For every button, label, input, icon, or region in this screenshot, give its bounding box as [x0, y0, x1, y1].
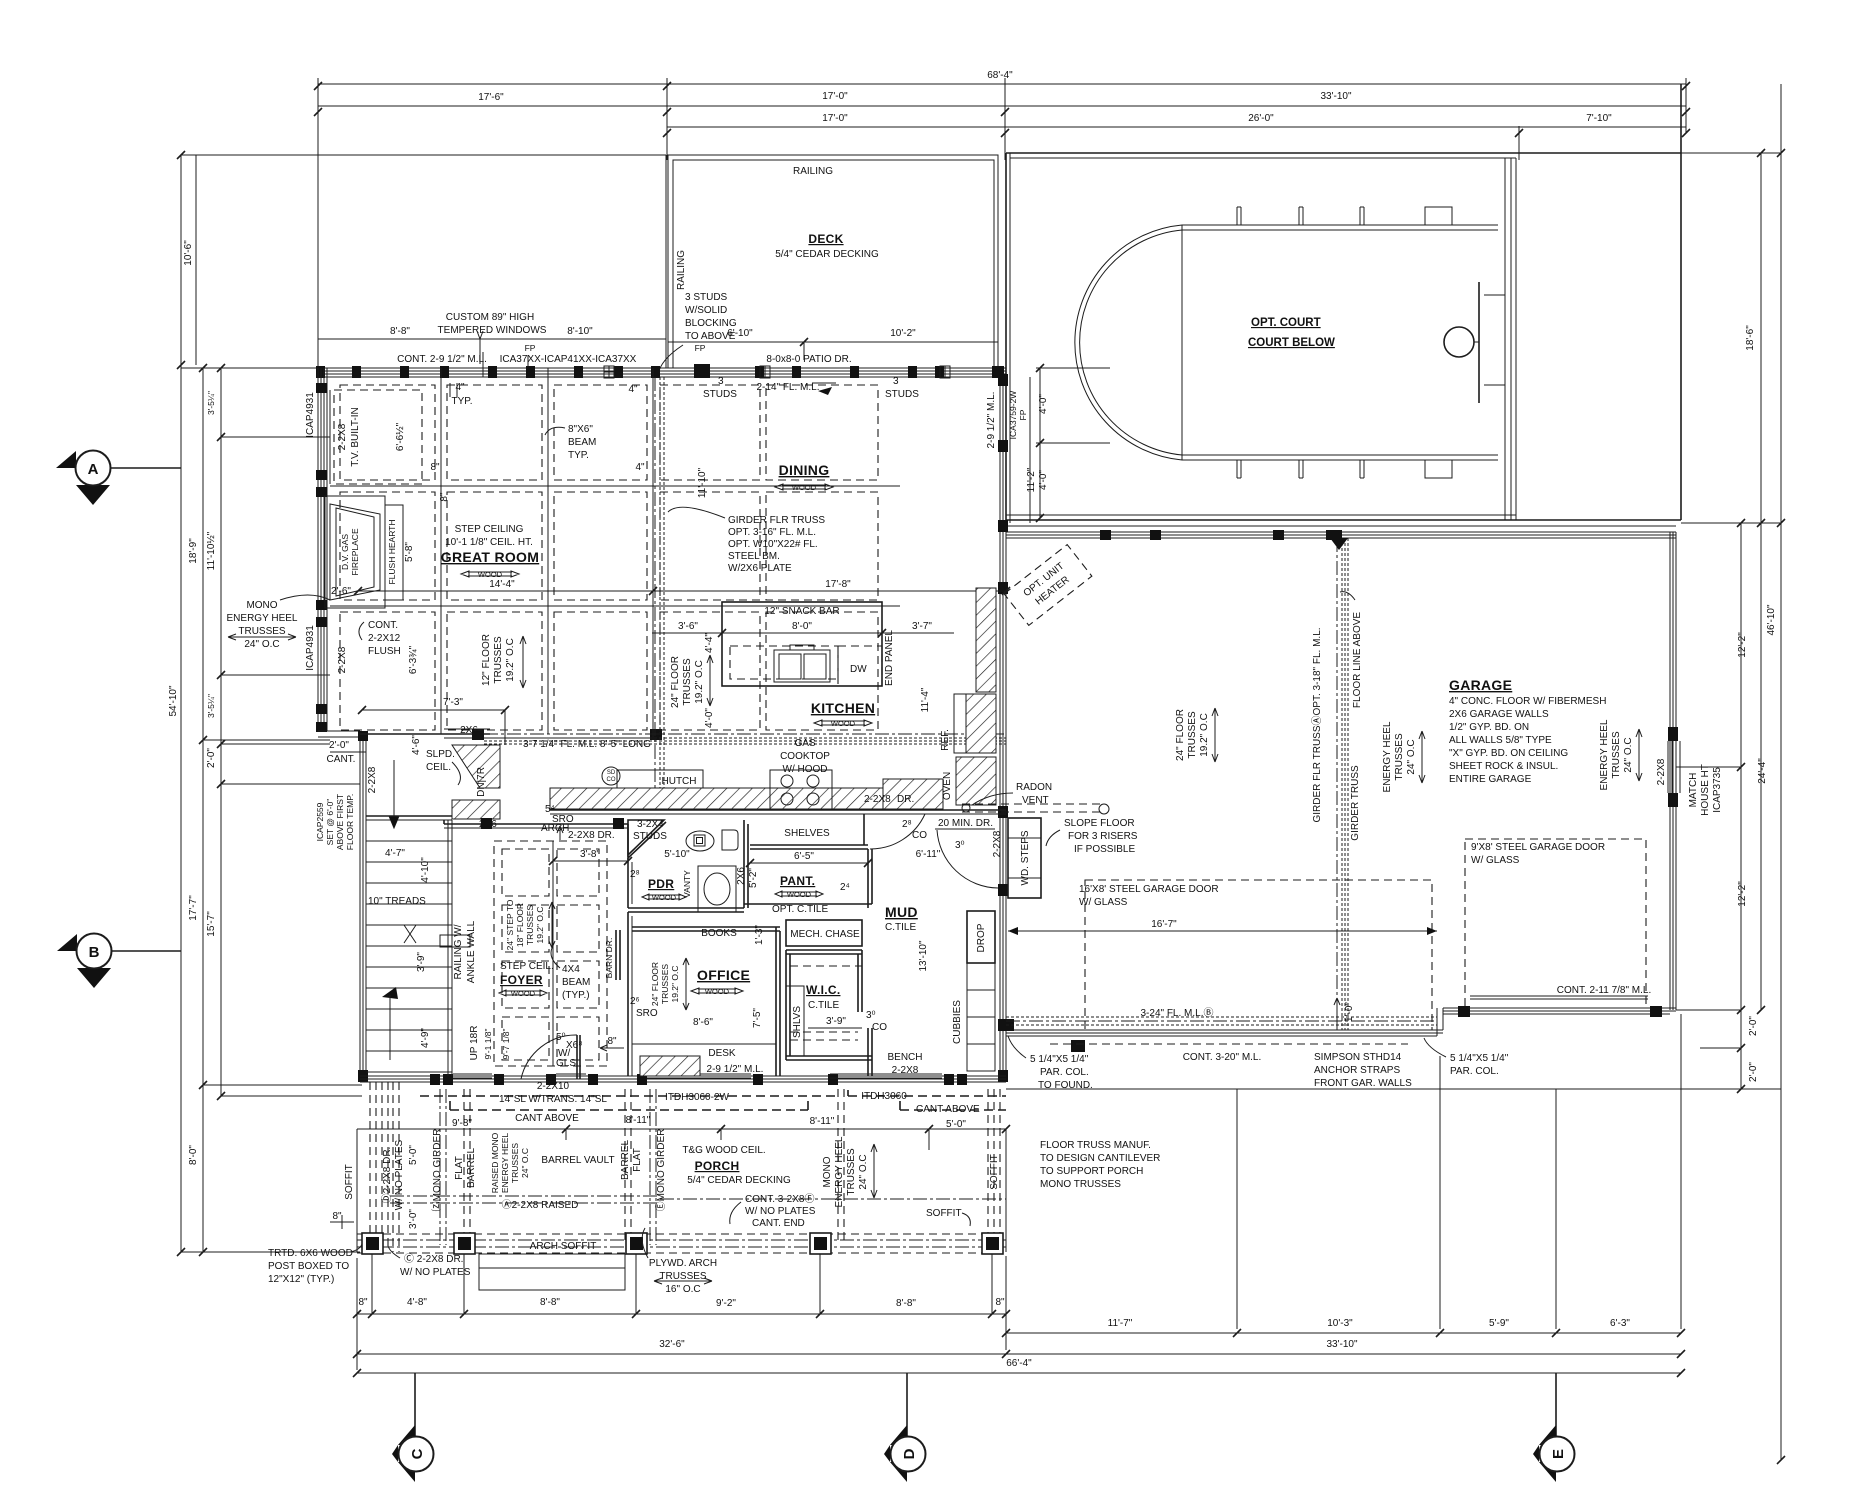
svg-text:ITDH3060-2W: ITDH3060-2W [665, 1092, 729, 1103]
svg-text:ENTIRE GARAGE: ENTIRE GARAGE [1449, 774, 1532, 785]
opt unit heater [1004, 545, 1092, 626]
svg-text:FLOOR TEMP.: FLOOR TEMP. [345, 794, 355, 850]
svg-text:COURT BELOW: COURT BELOW [1248, 337, 1335, 349]
extension horizontals [1520, 152, 1781, 154]
top wall [1006, 531, 1676, 533]
svg-text:OVEN: OVEN [942, 772, 953, 800]
svg-text:19.2" O.C: 19.2" O.C [670, 965, 680, 1002]
svg-text:ABOVE FIRST: ABOVE FIRST [335, 794, 345, 850]
svg-text:9'-2": 9'-2" [716, 1298, 736, 1309]
svg-text:FOR 3 RISERS: FOR 3 RISERS [1068, 831, 1138, 842]
svg-text:SLOPE FLOOR: SLOPE FLOOR [1064, 818, 1135, 829]
svg-text:10'-6": 10'-6" [183, 240, 194, 266]
2X6 wall label line across (great room south wall) [444, 737, 660, 739]
svg-text:E: E [1550, 1449, 1567, 1459]
svg-text:13'-10": 13'-10" [918, 940, 929, 971]
svg-text:ICAP2559: ICAP2559 [315, 802, 325, 841]
svg-text:12" SNACK BAR: 12" SNACK BAR [764, 606, 839, 617]
svg-text:8'-10": 8'-10" [567, 326, 593, 337]
svg-text:8": 8" [439, 492, 450, 502]
svg-text:ICAP3735: ICAP3735 [1712, 767, 1723, 813]
svg-text:3-2X4: 3-2X4 [637, 819, 664, 830]
front wall left segment [1006, 1029, 1443, 1031]
notch at 2'-0" cant [318, 730, 360, 732]
svg-text:RAILING: RAILING [793, 166, 833, 177]
raised girder dash-dot horizontals [390, 1196, 660, 1203]
svg-text:17'-6": 17'-6" [478, 92, 504, 103]
dim row 68'-4" [318, 83, 1686, 85]
svg-text:BEAM: BEAM [568, 437, 596, 448]
svg-text:ENERGY HEEL: ENERGY HEEL [227, 613, 298, 624]
svg-text:CONT.: CONT. [368, 620, 398, 631]
svg-text:PAR. COL.: PAR. COL. [1040, 1067, 1089, 1078]
svg-text:CONT. 2-11 7/8" M.L.: CONT. 2-11 7/8" M.L. [1557, 985, 1652, 996]
svg-text:ALL WALLS 5/8" TYPE: ALL WALLS 5/8" TYPE [1449, 735, 1552, 746]
svg-text:SOFFIT: SOFFIT [344, 1164, 355, 1200]
svg-text:PANT.: PANT. [780, 874, 815, 888]
wall under counters [550, 809, 1006, 811]
svg-text:W/2X6 PLATE: W/2X6 PLATE [728, 563, 792, 574]
svg-text:TRUSSES: TRUSSES [660, 964, 670, 1004]
svg-text:8": 8" [995, 1297, 1005, 1308]
svg-text:17'-0": 17'-0" [822, 91, 848, 102]
SLPD CEIL + hatch [452, 745, 500, 788]
svg-text:TRUSSES: TRUSSES [659, 1271, 707, 1282]
svg-text:C.TILE: C.TILE [808, 1000, 839, 1011]
floor girder dashes above front wall [1006, 1020, 1437, 1022]
svg-text:16'-7": 16'-7" [1151, 919, 1177, 930]
svg-text:W/SOLID: W/SOLID [685, 305, 727, 316]
svg-text:2-2X8: 2-2X8 [337, 423, 348, 450]
svg-text:2-2X8: 2-2X8 [367, 766, 378, 793]
svg-text:4'-10": 4'-10" [420, 857, 431, 883]
svg-text:WOOD: WOOD [511, 989, 536, 998]
svg-text:DINING: DINING [779, 462, 830, 478]
svg-text:8'-11": 8'-11" [626, 1115, 651, 1126]
svg-text:32'-6": 32'-6" [659, 1339, 685, 1350]
svg-text:⒵MONO GIRDER: ⒵MONO GIRDER [431, 1129, 443, 1212]
posts [362, 1233, 1003, 1254]
svg-text:CEIL.: CEIL. [426, 762, 451, 773]
svg-text:11'-7": 11'-7" [1108, 1318, 1133, 1329]
svg-text:FP: FP [525, 343, 536, 353]
svg-text:SOFFIT: SOFFIT [989, 1154, 1000, 1190]
svg-text:CUBBIES: CUBBIES [952, 1000, 963, 1044]
svg-text:TRUSSES: TRUSSES [1187, 711, 1198, 759]
svg-text:2'-0": 2'-0" [329, 740, 349, 751]
svg-text:2⁴: 2⁴ [840, 882, 850, 893]
svg-text:WOOD: WOOD [792, 483, 817, 492]
svg-text:8'-11": 8'-11" [810, 1116, 835, 1127]
svg-text:GLS: GLS [556, 1058, 576, 1069]
svg-text:ENERGY HEEL: ENERGY HEEL [500, 1133, 510, 1194]
svg-text:10'-3": 10'-3" [1327, 1318, 1353, 1329]
svg-text:1'-0": 1'-0" [1344, 1002, 1355, 1022]
svg-text:3⁰: 3⁰ [866, 1010, 876, 1021]
svg-text:10'-1 1/8" CEIL. HT.: 10'-1 1/8" CEIL. HT. [445, 537, 533, 548]
svg-text:ENERGY HEEL: ENERGY HEEL [1599, 719, 1610, 790]
svg-text:SOFFIT: SOFFIT [926, 1208, 962, 1219]
svg-text:ENERGY HEEL: ENERGY HEEL [1382, 721, 1393, 792]
svg-text:TRUSSES: TRUSSES [1611, 731, 1622, 779]
svg-text:SD: SD [607, 770, 616, 776]
pantry walls [744, 820, 748, 908]
svg-text:8": 8" [358, 1297, 368, 1308]
svg-text:PAR. COL.: PAR. COL. [1450, 1066, 1499, 1077]
svg-text:10" TREADS: 10" TREADS [368, 896, 426, 907]
hatch at office bottom left [640, 1056, 700, 1076]
wd steps [1008, 818, 1041, 898]
svg-text:TO DESIGN CANTILEVER: TO DESIGN CANTILEVER [1040, 1153, 1160, 1164]
svg-text:B: B [89, 944, 100, 961]
svg-text:SET @ 6'-0": SET @ 6'-0" [325, 799, 335, 846]
extension verticals [317, 78, 319, 368]
left soffit dashed vertical band [370, 1082, 388, 1250]
svg-text:3⁰: 3⁰ [955, 840, 965, 851]
svg-text:24" FLOOR: 24" FLOOR [670, 656, 681, 708]
svg-text:POST BOXED TO: POST BOXED TO [268, 1261, 349, 1272]
svg-text:W/ NO PLATES: W/ NO PLATES [400, 1267, 471, 1278]
svg-text:VANTY: VANTY [682, 870, 692, 898]
svg-text:2-2X8: 2-2X8 [1656, 758, 1667, 785]
svg-text:MATCH: MATCH [1688, 773, 1699, 808]
svg-text:RADON: RADON [1016, 782, 1052, 793]
svg-text:9'-1 1/8": 9'-1 1/8" [483, 1028, 493, 1059]
svg-text:ⒺMONO GIRDER: ⒺMONO GIRDER [655, 1129, 667, 1212]
svg-text:DECK: DECK [808, 232, 843, 246]
court outer boundary [1006, 152, 1681, 154]
basketball hoop [1478, 282, 1480, 403]
svg-text:2-2X8: 2-2X8 [892, 1065, 919, 1076]
ceiling beam grid dashed squares [340, 385, 878, 730]
svg-text:18'-9": 18'-9" [188, 538, 199, 564]
left wall [317, 368, 319, 731]
garage door dashed rects [1085, 880, 1432, 1030]
svg-text:2-2X8 DR.: 2-2X8 DR. [568, 830, 615, 841]
svg-text:C.TILE: C.TILE [885, 922, 916, 933]
svg-text:16" O.C: 16" O.C [665, 1284, 700, 1295]
front (bottom) wall [360, 1075, 1006, 1077]
svg-text:2-2X12: 2-2X12 [368, 633, 401, 644]
counter hatch band [550, 788, 883, 809]
fan symbol [686, 831, 714, 851]
counter top line w/ cooktop [617, 770, 703, 788]
svg-text:PORCH: PORCH [695, 1159, 740, 1173]
svg-text:3'-9": 3'-9" [826, 1016, 846, 1027]
svg-text:OPT. 3-16" FL. M.L.: OPT. 3-16" FL. M.L. [728, 527, 816, 538]
dash-dot girder vertical between dining/kitchen [654, 377, 656, 790]
svg-text:D.V. GAS: D.V. GAS [340, 534, 350, 570]
svg-text:ITDH3060: ITDH3060 [861, 1091, 907, 1102]
svg-text:2'-0": 2'-0" [206, 748, 217, 768]
svg-text:3'-6": 3'-6" [678, 621, 698, 632]
deck railing outline (double thin lines) [668, 155, 998, 368]
svg-text:7'-5": 7'-5" [752, 1008, 763, 1028]
svg-text:END PANEL: END PANEL [884, 630, 895, 686]
svg-text:BEAM: BEAM [562, 977, 590, 988]
svg-text:FLUSH: FLUSH [368, 646, 401, 657]
svg-text:FLUSH HEARTH: FLUSH HEARTH [387, 519, 397, 584]
svg-text:3'-0": 3'-0" [408, 1209, 419, 1229]
svg-text:TYP.: TYP. [452, 396, 473, 407]
svg-text:BOOKS: BOOKS [701, 928, 737, 939]
svg-text:17'-8": 17'-8" [825, 579, 851, 590]
svg-text:DROP: DROP [976, 923, 987, 952]
svg-text:8": 8" [332, 1211, 342, 1222]
foyer ceiling dashed grid [494, 841, 607, 1066]
svg-text:TYP.: TYP. [568, 450, 589, 461]
svg-text:WD. STEPS: WD. STEPS [1020, 830, 1031, 885]
svg-text:24" STEP TO: 24" STEP TO [505, 899, 515, 950]
svg-text:STEP CEILING: STEP CEILING [455, 524, 524, 535]
svg-text:W.I.C.: W.I.C. [806, 983, 840, 997]
stair treads [366, 820, 452, 1076]
section marker B [110, 950, 181, 952]
svg-text:REF.: REF. [940, 729, 951, 751]
svg-text:3: 3 [718, 376, 724, 387]
svg-text:WOOD: WOOD [705, 987, 730, 996]
right wall [1669, 532, 1671, 1010]
svg-text:5'-2": 5'-2" [748, 868, 759, 888]
svg-text:5'-10": 5'-10" [664, 849, 690, 860]
svg-text:19.2" O.C: 19.2" O.C [1199, 713, 1210, 757]
svg-text:6'-5": 6'-5" [794, 851, 814, 862]
svg-text:CANT.: CANT. [327, 754, 356, 765]
house right wall (shared with garage) [999, 374, 1001, 1082]
svg-text:FLAT: FLAT [454, 1156, 465, 1180]
svg-text:6'-6½": 6'-6½" [395, 422, 406, 451]
svg-text:12'-2": 12'-2" [1737, 632, 1748, 658]
svg-text:FLOOR TRUSS MANUF.: FLOOR TRUSS MANUF. [1040, 1140, 1151, 1151]
svg-text:8'-0": 8'-0" [792, 621, 812, 632]
svg-text:W/ GLASS: W/ GLASS [1471, 855, 1520, 866]
svg-text:"X" GYP. BD. ON CEILING: "X" GYP. BD. ON CEILING [1449, 748, 1568, 759]
extension horizontals [181, 154, 666, 156]
barn door [616, 930, 620, 980]
svg-text:UP 18R: UP 18R [469, 1026, 480, 1061]
svg-text:2-9 1/2" M.L.: 2-9 1/2" M.L. [986, 392, 997, 449]
svg-text:2X6: 2X6 [460, 725, 478, 736]
svg-text:STUDS: STUDS [703, 389, 737, 400]
svg-text:3 STUDS: 3 STUDS [685, 292, 728, 303]
svg-text:6'-3": 6'-3" [1610, 1318, 1630, 1329]
svg-text:W/ NO PLATES: W/ NO PLATES [745, 1206, 816, 1217]
svg-text:2X6 GARAGE WALLS: 2X6 GARAGE WALLS [1449, 709, 1549, 720]
svg-text:FP: FP [695, 343, 706, 353]
pdr walls [628, 820, 664, 855]
svg-text:12"X12" (TYP.): 12"X12" (TYP.) [268, 1274, 334, 1285]
svg-text:5/4" CEDAR DECKING: 5/4" CEDAR DECKING [775, 249, 879, 260]
svg-text:19.2" O.C: 19.2" O.C [535, 906, 545, 943]
svg-text:ICA3759-2W: ICA3759-2W [1008, 391, 1018, 440]
svg-text:BENCH: BENCH [887, 1052, 922, 1063]
svg-text:66'-4": 66'-4" [1006, 1358, 1032, 1369]
svg-text:2-14" FL. M.L.: 2-14" FL. M.L. [756, 382, 819, 393]
svg-text:TEMPERED WINDOWS: TEMPERED WINDOWS [438, 325, 547, 336]
svg-text:CANT ABOVE: CANT ABOVE [916, 1104, 980, 1115]
svg-text:SIMPSON STHD14: SIMPSON STHD14 [1314, 1052, 1402, 1063]
svg-text:CONT. 2-9 1/2" M.L.: CONT. 2-9 1/2" M.L. [397, 354, 487, 365]
svg-text:11'-2": 11'-2" [1026, 467, 1037, 492]
svg-text:BARN DR.: BARN DR. [604, 938, 614, 979]
svg-text:TRUSSES: TRUSSES [682, 658, 693, 706]
island dim 8'-0" [722, 632, 882, 634]
svg-text:8"X6": 8"X6" [568, 424, 593, 435]
svg-text:4'-8": 4'-8" [407, 1297, 427, 1308]
svg-text:24" FLOOR: 24" FLOOR [1175, 709, 1186, 761]
svg-text:33'-10": 33'-10" [1320, 91, 1351, 102]
dim row 17'-0" / 26'-0" / 7'-10" [667, 126, 1686, 128]
svg-text:TRUSSES: TRUSSES [510, 1143, 520, 1183]
svg-text:OPT. W10"X22# FL.: OPT. W10"X22# FL. [728, 539, 818, 550]
svg-text:FRONT GAR. WALLS: FRONT GAR. WALLS [1314, 1078, 1412, 1089]
sink [774, 650, 830, 682]
svg-text:C: C [409, 1448, 426, 1459]
svg-text:8'-0": 8'-0" [188, 1145, 199, 1165]
svg-text:18" FLOOR: 18" FLOOR [515, 903, 525, 947]
svg-text:15'-7": 15'-7" [206, 911, 217, 937]
wall from foyer to pdr [443, 820, 445, 824]
svg-text:24" O.C: 24" O.C [1623, 737, 1634, 772]
svg-text:3'-5¼": 3'-5¼" [206, 694, 216, 718]
svg-text:46'-10": 46'-10" [1766, 604, 1777, 635]
svg-text:8'-8": 8'-8" [540, 1297, 560, 1308]
porch boundary [357, 1128, 432, 1130]
svg-text:2-2X8: 2-2X8 [992, 830, 1003, 857]
svg-text:4" CONC. FLOOR W/ FIBERMESH: 4" CONC. FLOOR W/ FIBERMESH [1449, 696, 1606, 707]
svg-text:CONT. 3-2X8Ⓕ: CONT. 3-2X8Ⓕ [745, 1193, 814, 1205]
svg-text:1'-3": 1'-3" [754, 925, 765, 945]
svg-text:MECH. CHASE: MECH. CHASE [790, 929, 860, 940]
svg-text:FLAT: FLAT [632, 1148, 643, 1172]
svg-text:T&G WOOD CEIL.: T&G WOOD CEIL. [682, 1145, 765, 1156]
svg-text:26'-0": 26'-0" [1248, 113, 1274, 124]
svg-text:BARREL: BARREL [620, 1140, 631, 1180]
svg-text:ICAP4931: ICAP4931 [305, 392, 316, 438]
vertical dashed mono girder lines [393, 1082, 399, 1252]
svg-text:ANKLE WALL: ANKLE WALL [466, 920, 477, 983]
solid beam gridlines (thin) [441, 368, 653, 740]
svg-text:54'-10": 54'-10" [168, 685, 179, 716]
section marker A [110, 467, 181, 469]
svg-text:2⁸: 2⁸ [902, 819, 912, 830]
svg-text:OPT. COURT: OPT. COURT [1251, 317, 1321, 329]
svg-text:TRUSSES: TRUSSES [1394, 733, 1405, 781]
svg-text:17'-0": 17'-0" [822, 113, 848, 124]
svg-text:WOOD: WOOD [478, 570, 503, 579]
DW [838, 646, 882, 686]
svg-text:6'-3¾": 6'-3¾" [408, 645, 419, 674]
svg-text:5'-0": 5'-0" [408, 1145, 419, 1165]
svg-text:4": 4" [635, 462, 645, 473]
svg-text:GIRDER FLR TRUSS: GIRDER FLR TRUSS [728, 515, 825, 526]
svg-text:Ⓐ2-2X8 RAISED: Ⓐ2-2X8 RAISED [502, 1199, 579, 1211]
svg-text:GAS: GAS [794, 738, 815, 749]
svg-text:DESK: DESK [708, 1048, 736, 1059]
T.V. built-in niche [334, 390, 422, 484]
svg-text:T.V. BUILT-IN: T.V. BUILT-IN [350, 407, 361, 466]
wic/mud bottom walls [786, 1056, 872, 1060]
dim row 17'-6" / 17'-0" / 33'-10" [318, 105, 1686, 107]
svg-text:3'-7": 3'-7" [912, 621, 932, 632]
svg-text:10'-2": 10'-2" [890, 328, 916, 339]
wood floor symbol [461, 571, 519, 577]
svg-text:14'-4": 14'-4" [489, 579, 515, 590]
arch soffit band [357, 1234, 1006, 1253]
svg-text:ICAP4931: ICAP4931 [305, 625, 316, 671]
svg-text:D: D [901, 1448, 918, 1459]
svg-text:CO: CO [607, 777, 616, 783]
svg-text:7'-10": 7'-10" [1586, 113, 1612, 124]
svg-text:RAISED MONO: RAISED MONO [490, 1132, 500, 1193]
tick marks along court top/bottom [1237, 207, 1364, 225]
svg-text:DN|7R: DN|7R [476, 767, 487, 797]
REF / OVEN hatches on right wall [976, 588, 996, 692]
svg-text:WOOD: WOOD [831, 719, 856, 728]
svg-text:4'-7": 4'-7" [385, 848, 405, 859]
snack bar island [722, 602, 882, 686]
svg-text:BARREL VAULT: BARREL VAULT [541, 1155, 614, 1166]
svg-text:MONO: MONO [246, 600, 277, 611]
svg-text:5'-8": 5'-8" [404, 542, 415, 562]
svg-text:4'-4": 4'-4" [704, 633, 715, 653]
svg-text:8'-6": 8'-6" [693, 1017, 713, 1028]
svg-text:9'X8' STEEL GARAGE DOOR: 9'X8' STEEL GARAGE DOOR [1471, 842, 1605, 853]
svg-text:CUSTOM 89" HIGH: CUSTOM 89" HIGH [446, 312, 534, 323]
svg-text:TRTD. 6X6 WOOD: TRTD. 6X6 WOOD [268, 1248, 353, 1259]
svg-text:24" FLOOR: 24" FLOOR [650, 962, 660, 1006]
top wall (window band great room) [318, 367, 1006, 369]
svg-text:TRUSSES: TRUSSES [525, 905, 535, 945]
svg-text:CONT. 3-20" M.L.: CONT. 3-20" M.L. [1183, 1052, 1262, 1063]
svg-text:TRUSSES: TRUSSES [493, 636, 504, 684]
svg-text:17'-7": 17'-7" [188, 895, 199, 921]
step between segments [1437, 1008, 1443, 1036]
svg-text:OPT. C.TILE: OPT. C.TILE [772, 904, 828, 915]
svg-text:2-9 1/2" M.L.: 2-9 1/2" M.L. [707, 1064, 764, 1075]
svg-text:MONO: MONO [822, 1156, 833, 1187]
svg-text:11'-10½": 11'-10½" [206, 531, 217, 570]
svg-text:SLPD.: SLPD. [426, 749, 455, 760]
svg-text:24" O.C: 24" O.C [858, 1154, 869, 1189]
svg-text:TRUSSES: TRUSSES [238, 626, 286, 637]
svg-text:W/ NO PLATES: W/ NO PLATES [394, 1139, 405, 1210]
svg-text:4'-9": 4'-9" [420, 1028, 431, 1048]
svg-text:PDR: PDR [648, 877, 674, 891]
svg-text:2-2X8: 2-2X8 [337, 646, 348, 673]
svg-text:33'-10": 33'-10" [1326, 1339, 1357, 1350]
svg-text:6'-11": 6'-11" [916, 849, 941, 860]
svg-text:RAILING W/: RAILING W/ [453, 924, 464, 979]
svg-text:ANCHOR STRAPS: ANCHOR STRAPS [1314, 1065, 1400, 1076]
svg-text:8": 8" [607, 1036, 617, 1047]
svg-text:GARAGE: GARAGE [1449, 677, 1512, 693]
svg-text:2X6: 2X6 [736, 867, 747, 885]
svg-text:12" FLOOR: 12" FLOOR [481, 634, 492, 686]
svg-text:FOYER: FOYER [500, 973, 543, 987]
svg-text:CANT. END: CANT. END [752, 1218, 805, 1229]
svg-text:CO: CO [912, 830, 927, 841]
svg-text:FP: FP [1018, 409, 1028, 420]
svg-text:IF POSSIBLE: IF POSSIBLE [1074, 844, 1135, 855]
basketball court: rectangle with round end [1182, 225, 1498, 460]
svg-text:TRUSSES: TRUSSES [846, 1148, 857, 1196]
svg-text:STEEL BM.: STEEL BM. [728, 551, 780, 562]
svg-text:4'-0": 4'-0" [704, 708, 715, 728]
svg-text:24" O.C: 24" O.C [244, 639, 279, 650]
svg-text:16'X8' STEEL GARAGE DOOR: 16'X8' STEEL GARAGE DOOR [1079, 884, 1219, 895]
svg-text:BARREL: BARREL [466, 1148, 477, 1188]
